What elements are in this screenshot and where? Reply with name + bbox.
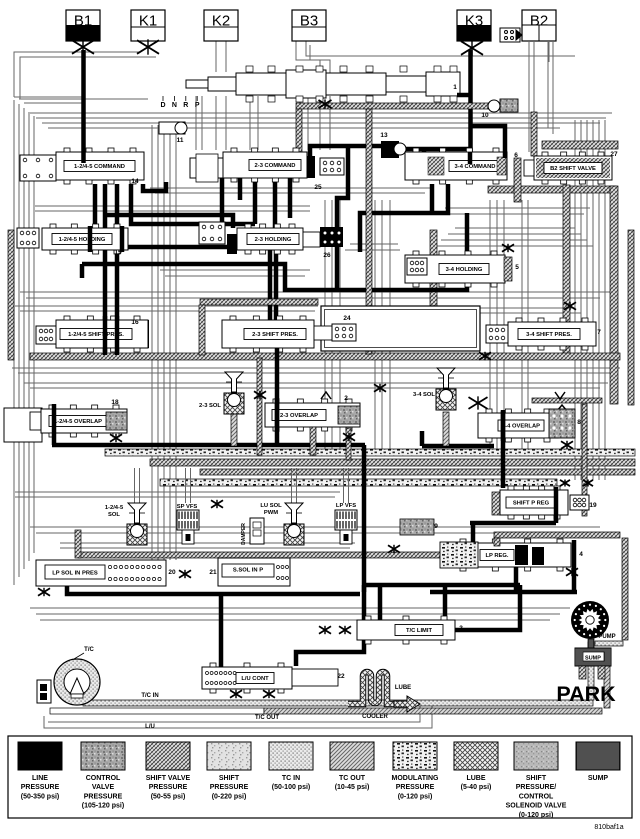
svg-text:PUMP: PUMP: [598, 634, 615, 640]
svg-text:LUBE: LUBE: [466, 775, 485, 782]
svg-text:PRESSURE: PRESSURE: [84, 793, 123, 800]
svg-text:DAMPER: DAMPER: [241, 523, 247, 545]
svg-text:16: 16: [131, 319, 139, 326]
svg-text:(0-120 psi): (0-120 psi): [519, 812, 554, 819]
svg-text:21: 21: [209, 569, 217, 576]
svg-text:2-3 SOL: 2-3 SOL: [199, 403, 221, 409]
svg-text:LINE: LINE: [32, 775, 48, 782]
svg-text:3: 3: [459, 625, 463, 632]
svg-text:24: 24: [343, 315, 351, 322]
svg-text:S.SOL IN P: S.SOL IN P: [233, 568, 263, 574]
svg-text:PRESSURE/: PRESSURE/: [516, 784, 557, 791]
svg-text:2-3 SHIFT PRES.: 2-3 SHIFT PRES.: [252, 332, 298, 338]
svg-text:8: 8: [577, 419, 581, 426]
svg-text:3-4 COMMAND: 3-4 COMMAND: [455, 164, 496, 170]
svg-text:4: 4: [579, 551, 583, 558]
svg-text:14: 14: [131, 178, 139, 185]
svg-text:LP REG.: LP REG.: [485, 553, 508, 559]
svg-text:2-3 COMMAND: 2-3 COMMAND: [255, 163, 296, 169]
svg-text:LP SOL IN PRES: LP SOL IN PRES: [52, 571, 98, 577]
svg-text:CONTROL: CONTROL: [86, 775, 121, 782]
svg-text:SHIFT: SHIFT: [526, 775, 547, 782]
svg-text:PRESSURE: PRESSURE: [396, 784, 435, 791]
svg-text:18: 18: [111, 399, 119, 406]
svg-text:SHIFT P REG: SHIFT P REG: [513, 501, 550, 507]
svg-text:9: 9: [434, 523, 438, 530]
svg-text:(105-120 psi): (105-120 psi): [82, 803, 124, 810]
svg-text:COOLER: COOLER: [362, 714, 388, 720]
svg-text:(50-55 psi): (50-55 psi): [151, 793, 186, 800]
svg-text:LUBE: LUBE: [395, 685, 411, 691]
svg-text:R: R: [183, 102, 188, 109]
svg-text:TC OUT: TC OUT: [339, 775, 366, 782]
svg-text:20: 20: [168, 569, 176, 576]
svg-text:LP VFS: LP VFS: [336, 503, 356, 509]
svg-text:2-3 HOLDING: 2-3 HOLDING: [255, 237, 292, 243]
svg-text:CONTROL: CONTROL: [519, 793, 554, 800]
svg-text:TC IN: TC IN: [282, 775, 300, 782]
svg-text:22: 22: [337, 673, 345, 680]
svg-text:27: 27: [610, 151, 618, 158]
svg-text:PRESSURE: PRESSURE: [149, 784, 188, 791]
svg-text:3-4 SHIFT PRES.: 3-4 SHIFT PRES.: [526, 332, 572, 338]
svg-text:N: N: [172, 102, 177, 109]
svg-text:T/C IN: T/C IN: [141, 693, 158, 699]
svg-text:(0-120 psi): (0-120 psi): [398, 793, 433, 800]
svg-text:B2 SHIFT VALVE: B2 SHIFT VALVE: [550, 166, 596, 172]
svg-text:P: P: [195, 102, 200, 109]
svg-text:810baf1a: 810baf1a: [594, 824, 623, 831]
svg-text:VALVE: VALVE: [92, 784, 115, 791]
svg-text:5: 5: [515, 264, 519, 271]
svg-text:SHIFT: SHIFT: [219, 775, 240, 782]
svg-text:1-2/4-5 COMMAND: 1-2/4-5 COMMAND: [74, 164, 125, 170]
svg-text:19: 19: [589, 502, 597, 509]
svg-text:(10-45 psi): (10-45 psi): [335, 784, 370, 791]
svg-text:3-4 HOLDING: 3-4 HOLDING: [446, 267, 483, 273]
svg-text:7: 7: [597, 329, 601, 336]
svg-text:SHIFT VALVE: SHIFT VALVE: [146, 775, 191, 782]
svg-text:25: 25: [314, 184, 322, 191]
svg-text:L/U: L/U: [145, 724, 155, 730]
svg-text:PRESSURE: PRESSURE: [21, 784, 60, 791]
svg-text:1-2/4-5 HOLDING: 1-2/4-5 HOLDING: [59, 237, 106, 243]
svg-text:L/U CONT: L/U CONT: [241, 676, 269, 682]
svg-text:LU SOL: LU SOL: [260, 503, 282, 509]
svg-text:D: D: [160, 102, 165, 109]
svg-text:1-2/4-5 OVERLAP: 1-2/4-5 OVERLAP: [54, 419, 102, 425]
svg-text:SP VFS: SP VFS: [177, 504, 198, 510]
svg-text:1-2/4-5: 1-2/4-5: [105, 505, 124, 511]
svg-text:13: 13: [380, 132, 388, 139]
svg-text:(5-40 psi): (5-40 psi): [461, 784, 492, 791]
svg-text:3-4 OVERLAP: 3-4 OVERLAP: [502, 424, 540, 430]
svg-text:PARK: PARK: [556, 682, 616, 706]
svg-text:(0-220 psi): (0-220 psi): [212, 793, 247, 800]
svg-text:26: 26: [323, 252, 331, 259]
svg-text:2-3 OVERLAP: 2-3 OVERLAP: [280, 413, 318, 419]
svg-text:1: 1: [453, 84, 457, 91]
svg-text:T/C: T/C: [84, 647, 94, 653]
svg-text:PWM: PWM: [264, 510, 278, 516]
svg-text:(50-350 psi): (50-350 psi): [21, 793, 60, 800]
svg-text:11: 11: [177, 137, 184, 144]
svg-text:2: 2: [344, 395, 348, 402]
svg-text:T/C OUT: T/C OUT: [255, 715, 279, 721]
svg-text:T/C LIMIT: T/C LIMIT: [406, 628, 433, 634]
svg-text:SOLENOID VALVE: SOLENOID VALVE: [506, 803, 567, 810]
svg-text:SOL: SOL: [108, 512, 120, 518]
svg-text:10: 10: [481, 112, 489, 119]
svg-text:PRESSURE: PRESSURE: [210, 784, 249, 791]
svg-text:(50-100 psi): (50-100 psi): [272, 784, 311, 791]
svg-text:15: 15: [114, 249, 122, 256]
svg-text:MODULATING: MODULATING: [392, 775, 439, 782]
svg-text:SUMP: SUMP: [585, 656, 601, 662]
svg-text:SUMP: SUMP: [588, 775, 609, 782]
svg-text:3-4 SOL: 3-4 SOL: [413, 392, 435, 398]
